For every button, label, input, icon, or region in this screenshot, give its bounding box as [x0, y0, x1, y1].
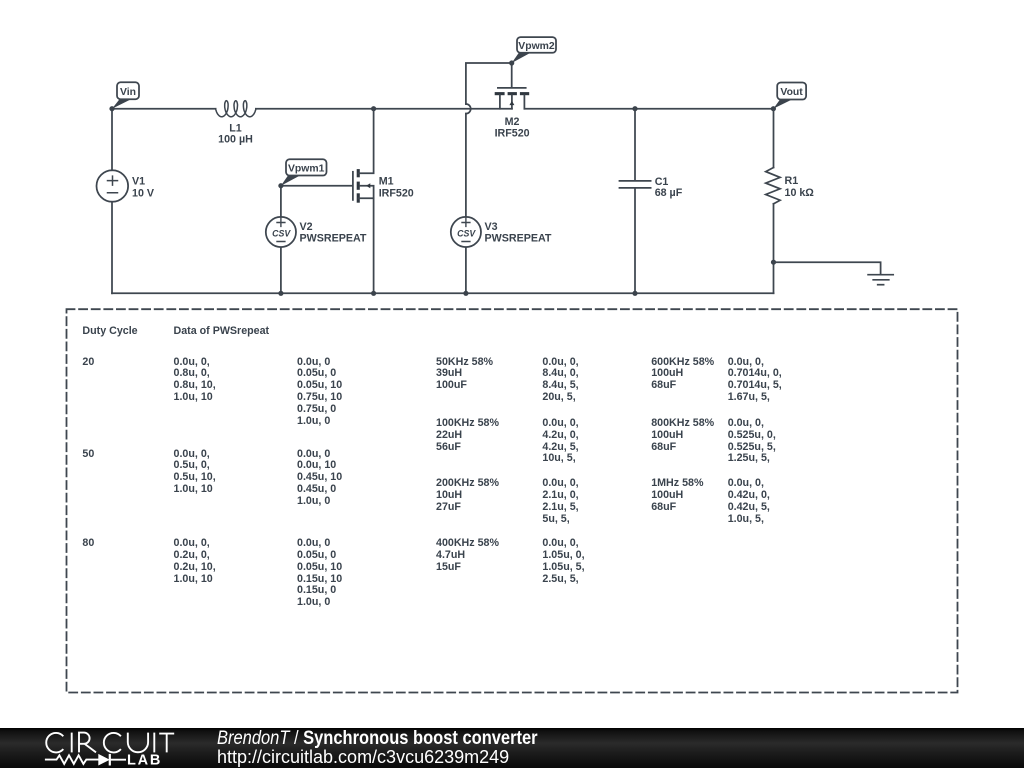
- text annotation header Duty Cycle: [82, 326, 137, 338]
- text annotation data F3: [651, 478, 703, 513]
- footer title line: [217, 729, 538, 747]
- junction R1 bottom / ground node: [771, 260, 776, 265]
- svg-text:PWSREPEAT: PWSREPEAT: [485, 232, 552, 244]
- text annotation data F2: [651, 418, 714, 453]
- svg-text:10 kΩ: 10 kΩ: [785, 187, 815, 199]
- wire V3 to Vpwm2 with hop over rail: [466, 63, 512, 217]
- voltage source V3 PWSREPEAT: [451, 217, 552, 293]
- svg-text:IRF520: IRF520: [495, 127, 530, 139]
- svg-text:CSV: CSV: [272, 229, 291, 239]
- svg-text:Vpwm1: Vpwm1: [288, 163, 325, 174]
- text annotation data B2: [174, 449, 216, 496]
- svg-text:V2: V2: [300, 221, 313, 233]
- text annotation data E3: [542, 478, 578, 525]
- transistor M1 IRF520 (NMOS): [353, 109, 414, 294]
- svg-text:R1: R1: [785, 175, 799, 187]
- wire Vin to L1: [112, 108, 216, 110]
- text annotation data D1: [436, 357, 493, 392]
- text annotation data G1: [728, 357, 782, 404]
- wire L1 to M2 source (switch node): [256, 108, 512, 110]
- text annotation data B1: [174, 357, 216, 404]
- capacitor C1 68 uF: [620, 109, 683, 294]
- text annotation header Data of PWSrepeat: [174, 326, 270, 338]
- text annotation duty 20: [82, 357, 94, 369]
- text annotation duty 80: [82, 538, 94, 550]
- text annotation data C2: [297, 449, 342, 508]
- svg-text:Vpwm2: Vpwm2: [518, 41, 555, 52]
- footer bar: [0, 728, 1024, 768]
- transistor M2 IRF520 (NMOS, rotated): [495, 88, 530, 139]
- text annotation data D3: [436, 478, 499, 513]
- text annotation data C3: [297, 538, 342, 609]
- svg-text:M2: M2: [505, 116, 520, 128]
- text annotation data F1: [651, 357, 714, 392]
- svg-text:10 V: 10 V: [132, 188, 155, 200]
- text annotation data G3: [728, 478, 770, 525]
- svg-text:68 µF: 68 µF: [655, 187, 683, 199]
- text annotation data C1: [297, 357, 342, 428]
- text annotation data E4: [542, 538, 584, 585]
- svg-text:Vout: Vout: [780, 87, 803, 98]
- svg-text:PWSREPEAT: PWSREPEAT: [300, 232, 367, 244]
- voltage source V1 10 V: [97, 109, 155, 294]
- text annotation data E2: [542, 418, 578, 465]
- junction Vout node: [771, 106, 776, 111]
- text annotation data D4: [436, 538, 499, 573]
- svg-text:CSV: CSV: [457, 229, 476, 239]
- text annotation duty 50: [82, 449, 94, 461]
- junction C1 bottom: [632, 291, 637, 296]
- text annotation data E1: [542, 357, 578, 404]
- dashed annotation box: [67, 309, 958, 692]
- resistor R1 10 kOhm: [766, 109, 815, 294]
- node flag Vout: [773, 83, 806, 109]
- junction V3 bottom: [463, 291, 468, 296]
- text annotation data G2: [728, 418, 776, 465]
- svg-text:LAB: LAB: [127, 753, 162, 768]
- junction node A (switch node at M1 drain): [371, 106, 376, 111]
- inductor L1: [216, 101, 256, 146]
- footer url line: [217, 748, 509, 766]
- wire bottom ground rail: [112, 292, 774, 294]
- svg-text:IRF520: IRF520: [379, 187, 414, 199]
- logo word CIRCUIT: [46, 733, 174, 753]
- wire hop arc: [466, 104, 471, 114]
- wire Vpwm2 to M2 gate: [511, 63, 513, 87]
- voltage source V2 PWSREPEAT: [266, 186, 367, 294]
- junction M1 source bottom: [371, 291, 376, 296]
- CircuitLab logo: [0, 728, 230, 768]
- junction C1 top: [632, 106, 637, 111]
- node flag Vin: [109, 82, 139, 111]
- wire to ground: [774, 262, 881, 274]
- svg-text:M1: M1: [379, 176, 394, 188]
- wire M2 drain to Vout rail: [524, 108, 773, 110]
- wire V2 to M1 gate: [281, 185, 352, 187]
- svg-text:100 µH: 100 µH: [218, 133, 253, 145]
- junction V2 bottom: [278, 291, 283, 296]
- logo resistor-diode glyph: [45, 754, 126, 766]
- ground: [868, 275, 893, 285]
- node flag Vpwm1: [278, 159, 326, 188]
- node flag Vpwm2: [509, 37, 556, 66]
- text annotation data B3: [174, 538, 216, 585]
- svg-text:V1: V1: [132, 176, 145, 188]
- svg-text:Vin: Vin: [120, 87, 136, 98]
- text annotation data D2: [436, 418, 499, 453]
- svg-text:V3: V3: [485, 221, 498, 233]
